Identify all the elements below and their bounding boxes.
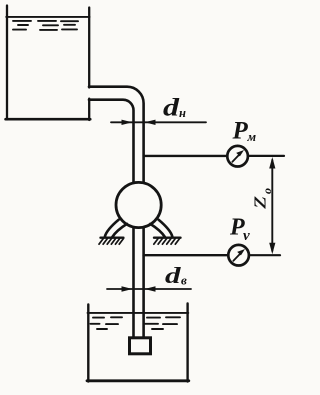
svg-text:d: d: [163, 95, 180, 122]
wire suction pipe outer edge (bend): [89, 87, 144, 225]
dimension arrowheads: [122, 120, 276, 292]
foot valve square: [130, 338, 151, 354]
arrow z0 bottom: [269, 243, 275, 255]
svg-text:н: н: [179, 106, 186, 120]
gauge PM: [227, 146, 248, 167]
svg-text:в: в: [181, 273, 187, 288]
svg-text:м: м: [247, 130, 257, 144]
label d_н: [163, 95, 186, 122]
tank T1 left wall: [6, 6, 8, 120]
pump support leg right: [159, 220, 173, 237]
wire suction pipe inner edge (bend): [89, 100, 134, 225]
tank T2 (bottom): [87, 304, 189, 382]
extension line top right: [249, 155, 285, 157]
pump U1 circle: [116, 182, 161, 227]
tank T1 water dashes: [13, 21, 78, 30]
dimension z0 vertical line: [271, 160, 273, 251]
pump support leg left: [105, 220, 119, 237]
tank T2 water surface: [88, 312, 189, 314]
svg-text:о: о: [260, 188, 274, 194]
wire pipe below pump: [132, 200, 135, 339]
arrow d_н left: [122, 120, 133, 125]
needle PM: [232, 154, 239, 161]
ground right: [154, 236, 181, 238]
tank T2 water dashes: [91, 317, 181, 329]
label P_м: [232, 118, 257, 145]
tank T1 water surface: [6, 16, 89, 18]
label z_0 (rotated): [246, 188, 275, 210]
tank T2 left wall: [87, 305, 89, 382]
tank T1 right wall upper: [88, 8, 90, 88]
ground left: [101, 236, 124, 238]
svg-text:z: z: [246, 195, 272, 210]
arrow d_н right: [145, 120, 156, 125]
gauge PV: [228, 245, 249, 266]
extension line bottom right: [250, 254, 281, 256]
tank T1 bottom: [6, 118, 91, 121]
svg-text:d: d: [165, 263, 182, 289]
svg-text:v: v: [243, 228, 250, 244]
arrow d_в left: [122, 286, 133, 291]
tank T2 bottom: [87, 379, 189, 382]
needle PV: [233, 253, 240, 260]
wire to gauge PM: [144, 155, 227, 157]
label P_v: [229, 215, 250, 245]
arrow z0 top: [269, 157, 275, 169]
wire to gauge PV: [144, 254, 228, 256]
tank T2 right wall: [186, 304, 188, 382]
dimension d_в line: [107, 288, 191, 290]
label d_в: [165, 263, 187, 289]
dimension d_н line: [111, 121, 206, 123]
arrow d_в right: [145, 286, 156, 291]
tank T1 right wall lower: [88, 99, 90, 120]
svg-text:P: P: [232, 118, 249, 145]
